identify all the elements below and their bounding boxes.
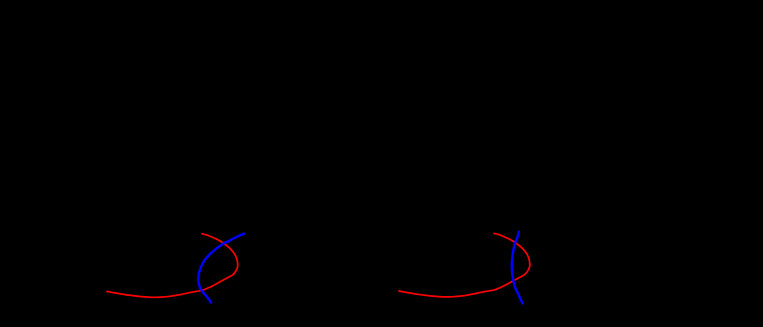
blue arc, left period <box>198 234 244 303</box>
red trajectory hook, left period <box>107 234 238 297</box>
red trajectory hook, right period <box>399 233 530 297</box>
blue arc, right period <box>512 232 523 304</box>
